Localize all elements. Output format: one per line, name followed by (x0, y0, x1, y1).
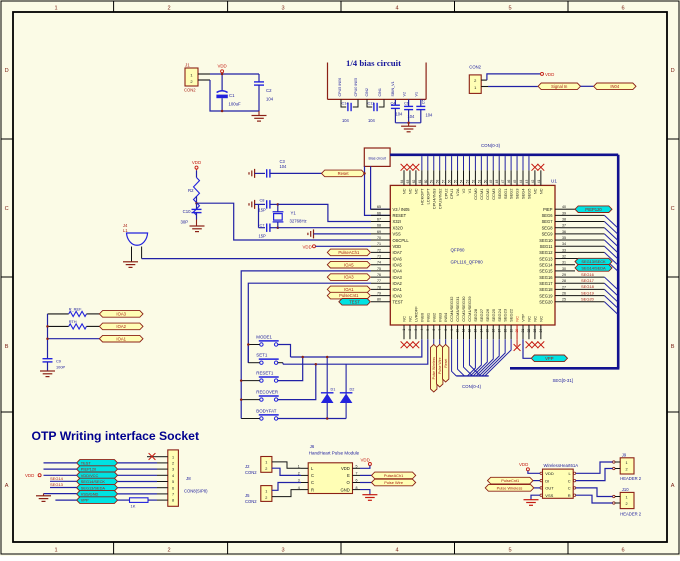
svg-text:R: R (311, 487, 314, 492)
svg-text:32: 32 (562, 254, 566, 258)
no-connect X marks top pins (401, 164, 408, 171)
net label PulseACh1 (HandHeart) (360, 474, 372, 476)
svg-text:R2: R2 (188, 188, 194, 193)
svg-text:SEG20: SEG20 (539, 299, 553, 304)
svg-text:78: 78 (377, 285, 381, 289)
svg-text:SEG17: SEG17 (581, 278, 595, 283)
svg-text:3: 3 (281, 548, 284, 554)
wire J5 pin1 to module (272, 483, 301, 491)
svg-text:30: 30 (562, 267, 566, 271)
resistor R2 (196, 170, 198, 177)
svg-text:4: 4 (420, 329, 424, 331)
svg-text:SEG18: SEG18 (581, 284, 595, 289)
svg-text:VPP: VPP (81, 498, 89, 503)
svg-text:BODYFAT: BODYFAT (256, 409, 276, 414)
svg-text:CON2: CON2 (184, 88, 196, 93)
svg-text:50: 50 (483, 180, 487, 184)
svg-text:IOA6: IOA6 (393, 256, 403, 261)
no-connect X red pin 20 (516, 339, 518, 346)
svg-text:J2: J2 (245, 464, 250, 469)
net label Pulse Wireless (vertical) (433, 339, 435, 344)
svg-text:4: 4 (172, 474, 174, 478)
svg-text:PIEP120: PIEP120 (585, 207, 602, 212)
svg-text:C6: C6 (404, 100, 409, 105)
svg-text:VTP: VTP (521, 314, 526, 322)
wire OTP row (118, 493, 157, 495)
svg-text:SEG16: SEG16 (581, 272, 595, 277)
svg-text:IOA5: IOA5 (393, 262, 403, 267)
svg-text:INB0: INB0 (419, 312, 424, 322)
svg-text:1: 1 (265, 461, 267, 465)
svg-text:18: 18 (503, 329, 507, 333)
svg-text:2: 2 (408, 329, 412, 331)
svg-text:VDD: VDD (393, 244, 402, 249)
svg-text:RESET1: RESET1 (256, 371, 274, 376)
svg-text:77: 77 (377, 279, 381, 283)
wire OTP row (118, 487, 157, 489)
svg-text:5: 5 (508, 6, 511, 12)
wire button line A to pin 4 (291, 339, 422, 357)
capacitor C11 (367, 99, 372, 107)
svg-text:R: R (568, 493, 571, 498)
svg-text:9: 9 (450, 329, 454, 331)
svg-text:CPU5 IN06: CPU5 IN06 (338, 78, 342, 97)
wire crystal left rail (255, 203, 259, 205)
svg-text:SBIN_V1: SBIN_V1 (391, 81, 395, 96)
svg-text:79: 79 (377, 291, 381, 295)
ground (C9) (40, 370, 55, 372)
svg-text:3: 3 (281, 6, 284, 12)
wires bottom pins to CON(0-4) line (left fan) (452, 339, 457, 376)
junction dot Reset (363, 172, 366, 175)
wire MODE1 to line A (278, 345, 291, 358)
svg-text:1/4 bias circuit: 1/4 bias circuit (346, 58, 401, 68)
svg-text:J1: J1 (185, 63, 190, 68)
wire IOA1 row (48, 338, 100, 340)
svg-text:Pulse Wireless: Pulse Wireless (432, 357, 436, 380)
svg-text:SEG22: SEG22 (509, 308, 514, 322)
bus SEG horizontal bottom (510, 367, 619, 370)
crystal Y1 32768Hz (273, 211, 284, 213)
svg-text:45: 45 (513, 180, 517, 184)
net label Signal In (538, 83, 581, 90)
svg-text:NC: NC (527, 316, 532, 322)
svg-text:U1: U1 (551, 179, 557, 184)
svg-text:Reset: Reset (444, 359, 448, 368)
ground (C3 left) (254, 169, 256, 178)
svg-text:20: 20 (515, 329, 519, 333)
ground (bias circuit) (408, 123, 410, 126)
svg-text:Y1: Y1 (291, 211, 297, 216)
svg-text:7: 7 (438, 329, 442, 331)
svg-text:Reset: Reset (338, 171, 350, 176)
svg-text:J9: J9 (622, 452, 627, 457)
wire buzzer to IOA6 pin 73 (141, 247, 143, 259)
wire J1 pin1 to VDD rail (198, 73, 210, 75)
svg-text:V3 / IN05: V3 / IN05 (393, 207, 411, 212)
svg-text:CIN2: CIN2 (365, 88, 369, 96)
svg-text:IOA5: IOA5 (344, 262, 354, 267)
svg-text:SEG20: SEG20 (581, 297, 595, 302)
svg-text:43: 43 (525, 180, 529, 184)
svg-text:B: B (5, 344, 9, 350)
svg-text:HCKOPT: HCKOPT (419, 188, 424, 205)
svg-text:17: 17 (497, 329, 501, 333)
svg-text:SEG9: SEG9 (542, 232, 554, 237)
svg-text:IOA1: IOA1 (393, 287, 403, 292)
svg-text:59: 59 (430, 180, 434, 184)
svg-text:TEST: TEST (81, 460, 92, 465)
bus CON(0-3) horizontal (390, 154, 618, 157)
svg-text:J8: J8 (186, 476, 191, 481)
svg-text:14: 14 (480, 329, 484, 333)
capacitor C6 (408, 99, 410, 106)
right pin wires and bus entries (561, 208, 576, 210)
svg-text:NC: NC (538, 316, 543, 322)
svg-text:IOA3: IOA3 (393, 275, 403, 280)
svg-text:VDD: VDD (361, 457, 370, 462)
svg-text:8: 8 (172, 499, 174, 503)
svg-text:J5: J5 (245, 493, 250, 498)
svg-text:SEG2: SEG2 (509, 188, 514, 199)
svg-text:CON8(SIP8): CON8(SIP8) (184, 489, 208, 494)
wire Wireless C to J9 pin2 (576, 469, 613, 481)
svg-text:IOA4: IOA4 (393, 269, 403, 274)
capacitor C7 15P (259, 227, 266, 229)
svg-text:IOA1: IOA1 (116, 336, 126, 341)
svg-text:C: C (671, 206, 675, 212)
svg-text:NC: NC (408, 188, 413, 194)
svg-text:VDD: VDD (25, 473, 34, 478)
svg-text:13: 13 (474, 329, 478, 333)
svg-text:CCM1: CCM1 (479, 188, 484, 200)
net name SEG13 (OTP) (50, 487, 77, 489)
svg-text:NC: NC (402, 316, 407, 322)
svg-text:SEG25: SEG25 (491, 308, 496, 322)
svg-text:CON(0-4): CON(0-4) (462, 384, 482, 389)
svg-text:INB4: INB4 (443, 312, 448, 322)
svg-text:J10: J10 (622, 487, 629, 492)
svg-text:C: C (311, 473, 314, 478)
svg-text:VSS/GND: VSS/GND (81, 491, 99, 496)
svg-text:2: 2 (265, 467, 267, 471)
svg-text:VDD: VDD (545, 471, 554, 476)
svg-text:D: D (671, 68, 675, 74)
net label Reset (322, 170, 365, 177)
net label PIEP120 (OTP) (77, 466, 118, 473)
wire OTP left stubs (44, 462, 77, 464)
svg-text:SEG16: SEG16 (539, 275, 553, 280)
IC U1 GPL116_QFP80 body (390, 185, 555, 325)
svg-text:70: 70 (377, 236, 381, 240)
connector J2 (261, 457, 272, 473)
svg-text:51: 51 (477, 180, 481, 184)
svg-text:CCM3/SEG31: CCM3/SEG31 (455, 296, 460, 322)
wire pin 75 to button rail (241, 271, 371, 419)
svg-text:72: 72 (377, 248, 381, 252)
svg-text:HEADER 2: HEADER 2 (620, 476, 642, 481)
svg-text:48: 48 (495, 180, 499, 184)
wire RESET1 riser (278, 357, 303, 381)
connector J8 CON8 (168, 450, 179, 506)
svg-text:IN04: IN04 (610, 84, 620, 89)
wire left rail RESET1/RECOVER/BODYFAT (241, 380, 260, 382)
svg-text:8: 8 (444, 329, 448, 331)
connector J1 (185, 68, 198, 86)
wire CON2 pin2 to VDD (481, 79, 487, 81)
svg-text:5: 5 (426, 329, 430, 331)
svg-text:VDD/VCC: VDD/VCC (81, 473, 99, 478)
svg-text:12: 12 (468, 329, 472, 333)
svg-text:VDD: VDD (217, 64, 226, 69)
svg-text:4: 4 (395, 6, 398, 12)
svg-text:X32I: X32I (393, 219, 401, 224)
svg-text:SEG14/SECK: SEG14/SECK (81, 479, 106, 484)
no-connect X J8 pin1 (147, 456, 157, 458)
svg-text:CPU3/INS2: CPU3/INS2 (437, 188, 442, 209)
svg-text:NC: NC (538, 188, 543, 194)
svg-text:SEG17: SEG17 (539, 281, 553, 286)
svg-text:GPL116_QFP80: GPL116_QFP80 (451, 260, 484, 265)
svg-text:32768Hz: 32768Hz (290, 219, 307, 224)
svg-text:38: 38 (562, 217, 566, 221)
svg-text:56: 56 (448, 180, 452, 184)
svg-text:1: 1 (402, 329, 406, 331)
net label SEG13/SEDA (OTP) (77, 484, 118, 491)
svg-text:60: 60 (424, 180, 428, 184)
svg-text:CPU2: CPU2 (443, 188, 448, 199)
svg-text:Pulse Wire: Pulse Wire (384, 480, 403, 485)
svg-text:GND: GND (340, 487, 349, 492)
diode D2 (345, 364, 347, 418)
svg-text:VSS: VSS (393, 232, 401, 237)
svg-text:IOA2: IOA2 (116, 324, 126, 329)
wire J1 pin2 down to ground rail (198, 79, 210, 81)
net label Pulse Wireless (Wireless) (534, 487, 540, 489)
svg-text:26: 26 (562, 291, 566, 295)
svg-text:PulseACh1: PulseACh1 (384, 473, 403, 478)
svg-text:CON2: CON2 (469, 65, 481, 70)
svg-text:C: C (5, 206, 9, 212)
svg-text:V2: V2 (403, 92, 407, 97)
svg-text:35: 35 (562, 236, 566, 240)
svg-text:LCKOPT: LCKOPT (425, 188, 430, 205)
svg-text:42: 42 (531, 180, 535, 184)
svg-text:76: 76 (377, 273, 381, 277)
net label SEG14/SEDA (pin 30) (575, 265, 612, 272)
ground (Wireless) (531, 495, 540, 499)
wire Wireless C to J10 pin1 (576, 488, 613, 497)
net label VSS/GND (OTP) (77, 491, 118, 498)
svg-text:44: 44 (519, 180, 523, 184)
svg-text:73: 73 (377, 254, 381, 258)
svg-text:15P: 15P (259, 234, 267, 239)
wire RECOVER riser (278, 364, 316, 399)
svg-text:CCM4/SEG32: CCM4/SEG32 (449, 296, 454, 322)
svg-text:6: 6 (432, 329, 436, 331)
net label Pulse Wire (vertical) (439, 339, 441, 344)
svg-text:DI: DI (545, 478, 549, 483)
svg-text:NC: NC (402, 188, 407, 194)
resistor 1K (VPP) (118, 499, 130, 501)
sheet column/row tick lines (113, 1, 115, 12)
svg-text:C: C (568, 486, 571, 491)
svg-text:22: 22 (527, 329, 531, 333)
svg-text:63: 63 (406, 180, 410, 184)
svg-text:100P: 100P (56, 364, 65, 369)
wire IOA vertical rail (47, 314, 49, 359)
svg-text:104: 104 (368, 118, 376, 123)
capacitor C14 (341, 99, 346, 107)
svg-text:SEG14: SEG14 (539, 262, 553, 267)
svg-text:SEG4: SEG4 (521, 188, 526, 199)
svg-text:C8: C8 (260, 197, 265, 202)
svg-text:53: 53 (465, 180, 469, 184)
svg-text:LVROFF: LVROFF (414, 306, 419, 322)
net name SEG14 (OTP) (50, 480, 77, 482)
svg-text:INB1: INB1 (425, 312, 430, 322)
svg-text:46: 46 (507, 180, 511, 184)
svg-text:55: 55 (454, 180, 458, 184)
svg-text:PulseCnt1: PulseCnt1 (501, 478, 519, 483)
svg-text:SEG19: SEG19 (581, 290, 595, 295)
svg-text:CIN1: CIN1 (378, 88, 382, 96)
capacitor C10 30P (196, 203, 198, 209)
svg-text:QFP80: QFP80 (451, 248, 465, 253)
wire Signal In to IN04 (581, 85, 594, 87)
svg-text:INB3: INB3 (437, 312, 442, 322)
wire VPP left stub (55, 499, 76, 501)
svg-text:3: 3 (172, 468, 174, 472)
svg-text:1: 1 (172, 455, 174, 459)
svg-text:2: 2 (625, 502, 627, 506)
net label SEG13/SECK (pin 31) (575, 258, 612, 265)
capacitor C5 (420, 99, 422, 106)
svg-text:15: 15 (486, 329, 490, 333)
svg-text:X32O: X32O (393, 225, 403, 230)
svg-text:SEG[0-31]: SEG[0-31] (553, 378, 574, 383)
svg-text:40: 40 (562, 205, 566, 209)
svg-text:L1: L1 (123, 228, 128, 233)
svg-text:SEG5: SEG5 (527, 188, 532, 199)
svg-text:C5: C5 (421, 99, 426, 104)
net label SEG14/SECK (OTP) (77, 478, 118, 485)
svg-text:C4: C4 (391, 100, 397, 105)
wire J2 pin2 to module (272, 468, 301, 475)
svg-text:D: D (5, 68, 9, 74)
svg-text:A: A (5, 483, 9, 489)
svg-text:RTH: RTH (69, 319, 77, 324)
svg-text:104: 104 (342, 118, 350, 123)
svg-text:IOA3: IOA3 (116, 311, 126, 316)
net label VPP (OTP) (77, 497, 118, 504)
wire OTP row (118, 481, 157, 483)
svg-text:74: 74 (377, 261, 381, 265)
svg-text:OUT: OUT (545, 486, 554, 491)
svg-text:SEG10: SEG10 (539, 238, 553, 243)
svg-text:IOA2: IOA2 (393, 281, 403, 286)
svg-text:19: 19 (509, 329, 513, 333)
no-connect X marks bottom pins (401, 341, 408, 348)
connector J5 (261, 486, 272, 502)
svg-text:CCM3: CCM3 (491, 188, 496, 200)
svg-text:SEG6: SEG6 (542, 213, 554, 218)
svg-text:25: 25 (562, 298, 566, 302)
svg-text:6: 6 (621, 6, 624, 12)
svg-text:4: 4 (395, 548, 398, 554)
svg-text:SEG18: SEG18 (539, 287, 553, 292)
svg-text:66: 66 (377, 211, 381, 215)
svg-text:1: 1 (265, 490, 267, 494)
module box Bias circuit (364, 148, 390, 166)
svg-text:HEADER 2: HEADER 2 (620, 512, 642, 517)
svg-text:V1: V1 (415, 92, 419, 97)
svg-text:VDD: VDD (519, 462, 528, 467)
bus SEG vertical right (617, 155, 620, 368)
svg-text:RESET: RESET (393, 213, 407, 218)
svg-text:SEG13/SEDA: SEG13/SEDA (81, 485, 106, 490)
svg-text:49: 49 (489, 180, 493, 184)
capacitor C1 100uF (221, 74, 223, 91)
svg-text:39: 39 (562, 211, 566, 215)
svg-text:C14: C14 (342, 100, 350, 105)
svg-text:Pulse Wire: Pulse Wire (438, 357, 442, 374)
capacitor C3 104 (255, 172, 265, 174)
svg-text:23: 23 (533, 329, 537, 333)
svg-text:C: C (568, 478, 571, 483)
svg-text:D2: D2 (350, 388, 355, 392)
svg-text:C10: C10 (183, 209, 191, 214)
svg-text:2: 2 (167, 6, 170, 12)
svg-text:71: 71 (377, 242, 381, 246)
svg-text:Signal In: Signal In (551, 84, 568, 89)
ground (VSS pin 69) (313, 229, 315, 238)
ground (C10) (196, 220, 198, 226)
net label IOA3 (pin 76) (327, 274, 370, 281)
svg-text:VDD: VDD (341, 466, 350, 471)
net label IOA2 (left) (99, 323, 143, 330)
svg-text:104: 104 (396, 112, 404, 117)
svg-text:1: 1 (54, 6, 57, 12)
svg-text:HandHeart Pulse Module: HandHeart Pulse Module (309, 451, 360, 456)
wire bias ground rail (395, 122, 420, 124)
svg-text:A: A (671, 483, 675, 489)
ground (buzzer) (123, 261, 138, 263)
svg-text:SEG27: SEG27 (479, 308, 484, 322)
svg-text:CPU0 IN05: CPU0 IN05 (354, 78, 358, 97)
wire pin 77 to button rail (248, 283, 371, 363)
net label Reset (vertical) (445, 339, 447, 344)
svg-text:11: 11 (462, 329, 466, 333)
svg-text:SEG7: SEG7 (542, 219, 554, 224)
svg-text:C1: C1 (229, 93, 235, 98)
svg-text:V2: V2 (461, 188, 466, 194)
net label TEST (OTP) (77, 460, 118, 467)
svg-text:52: 52 (471, 180, 475, 184)
svg-text:104: 104 (426, 113, 434, 118)
resistor R_REF (48, 313, 69, 315)
IC top pins 64-41 (403, 170, 405, 185)
svg-text:PulseCnt1: PulseCnt1 (339, 293, 359, 298)
svg-text:C9: C9 (56, 358, 61, 363)
svg-text:SEG28: SEG28 (473, 308, 478, 322)
svg-text:CPU1: CPU1 (449, 188, 454, 199)
IC left pins 65-80 (371, 208, 390, 210)
svg-text:CCM2: CCM2 (485, 188, 490, 200)
net label PulseACh1 (pin 72) (327, 249, 370, 256)
svg-text:CPU4/INS3: CPU4/INS3 (431, 188, 436, 209)
wire BODYFAT to diode rail (278, 418, 346, 420)
